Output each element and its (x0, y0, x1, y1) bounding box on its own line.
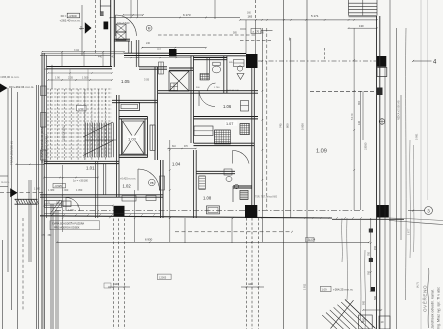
svg-text:900: 900 (358, 100, 361, 105)
svg-text:1.09: 1.09 (316, 149, 327, 155)
vertical x291 (290, 38, 292, 218)
boxes below wall 1 (45, 201, 62, 208)
svg-text:NÍZKA +2 500 AB: NÍZKA +2 500 AB (398, 100, 401, 120)
svg-text:6 173: 6 173 (183, 13, 191, 17)
svg-text:M: M (148, 27, 151, 31)
road line a (7, 88, 9, 272)
svg-text:+0,425 m.n.m.: +0,425 m.n.m. (120, 177, 136, 180)
label 1.03 (127, 136, 139, 142)
block top dim line (124, 57, 191, 59)
dim vertical x361 (360, 91, 362, 210)
staircase treads (84, 123, 86, 158)
dim vertical x246 (245, 20, 247, 54)
dashed vertical bottom R2 (251, 218, 253, 329)
dim vertical x62 (62, 165, 64, 232)
wall pair x116.5 (116, 95, 118, 197)
svg-text:1 760: 1 760 (214, 87, 220, 89)
dim ticks top (109, 17, 111, 19)
tick under arrow (79, 28, 84, 30)
leader line x82 (81, 5, 83, 56)
svg-text:1 050: 1 050 (76, 189, 83, 192)
vestibule dim verticals (130, 0, 132, 17)
road dash-dot line (55, 210, 365, 212)
X shaft boxes (171, 83, 178, 91)
dashed y91 right (310, 90, 377, 92)
svg-text:940: 940 (374, 245, 377, 250)
svg-text:150/130/150: 150/130/150 (63, 125, 66, 140)
box near column (234, 60, 245, 67)
svg-text:2 05: 2 05 (68, 76, 73, 79)
road centre dashed (0, 192, 44, 194)
svg-text:OVĚŘENO: OVĚŘENO (421, 285, 428, 312)
svg-text:1.08: 1.08 (203, 196, 212, 201)
vestibule right wall pair (128, 41, 130, 54)
corridor dim (44, 205, 113, 207)
svg-text:100/80: 100/80 (365, 142, 368, 150)
svg-text:1 380: 1 380 (34, 187, 41, 190)
svg-text:165: 165 (248, 14, 253, 18)
corridor diagonal (50, 200, 60, 214)
block dark seg (169, 49, 177, 57)
svg-text:TRASA 250/150 kV: TRASA 250/150 kV (10, 141, 14, 165)
X shaft (169, 71, 189, 91)
right line x406 (405, 28, 408, 300)
svg-text:ČIARA SCHODIŠŤA PUZDRA: ČIARA SCHODIŠŤA PUZDRA (52, 223, 85, 226)
vestibule dim line (123, 14, 143, 16)
bath right sink circle (237, 66, 242, 71)
svg-text:3 05: 3 05 (144, 78, 150, 82)
svg-text:Jandrisek odvodn. kanal.: Jandrisek odvodn. kanal. (431, 289, 435, 329)
svg-text:760: 760 (368, 270, 371, 275)
dashed vertical bottom L2 (118, 219, 120, 329)
vestibule bottom wall (114, 38, 130, 40)
benchmark arrow top (85, 22, 92, 34)
svg-text:6 930: 6 930 (145, 238, 153, 242)
svg-text:+0,05/280: +0,05/280 (94, 126, 97, 138)
dim vertical x354 (353, 28, 355, 210)
svg-text:-0,525: -0,525 (54, 184, 62, 188)
svg-text:PB: PB (150, 181, 154, 185)
right line x390 (389, 0, 391, 329)
door arc 1.08 (233, 150, 250, 163)
wall pair x136 (135, 40, 137, 67)
left tick 1 (0, 175, 8, 177)
small box bottom wall (379, 316, 390, 329)
hatch grid label (77, 105, 87, 111)
svg-text:1.02: 1.02 (123, 184, 132, 189)
elevator shaft walls (119, 116, 148, 118)
dashed vertical x267 (266, 28, 268, 210)
chain markers (369, 229, 373, 233)
svg-text:745: 745 (279, 123, 283, 128)
svg-text:380: 380 (48, 234, 53, 237)
top dim rows (42, 51, 124, 53)
inner wall x52 (51, 65, 53, 89)
svg-text:+265.40 m.n.m.: +265.40 m.n.m. (60, 19, 81, 23)
svg-text:10=+0,540: 10=+0,540 (117, 21, 130, 25)
1.08 bath wall (233, 185, 252, 187)
svg-text:1 677: 1 677 (407, 228, 411, 235)
wall below stairs (44, 160, 119, 162)
svg-text:TSR, TST, prívod 600: TSR, TST, prívod 600 (255, 196, 278, 199)
door arc vestibule (116, 15, 137, 36)
section mark 3 (425, 207, 433, 215)
terrain wavy 1 (409, 140, 412, 258)
top wall of block (47, 66, 113, 68)
left wall window 2 (41, 113, 47, 128)
section mark 4 (413, 60, 432, 62)
wall pair x95.5 (95, 161, 97, 218)
svg-text:780: 780 (368, 251, 371, 256)
dashed vertical road (22, 218, 24, 310)
1.08 desk hatch (199, 176, 206, 189)
svg-text:240: 240 (146, 42, 151, 45)
wall segment y67 right (139, 66, 167, 68)
radiator 1.05 (159, 62, 164, 74)
1.01 level box (53, 184, 66, 188)
svg-text:5 171: 5 171 (311, 14, 319, 18)
building left face (46, 55, 48, 218)
wall pair x155 (154, 67, 156, 160)
site wall left pair (41, 53, 43, 329)
dim 440 left (108, 286, 130, 288)
kitchenette 1.07 (194, 126, 213, 136)
vestibule top-left walls (100, 5, 111, 7)
svg-text:⌀ 170: ⌀ 170 (253, 30, 260, 34)
svg-text:440: 440 (248, 282, 253, 286)
svg-text:UL. SVRÁTECKÉHO (DIM): UL. SVRÁTECKÉHO (DIM) (39, 126, 44, 163)
level box bottom right (321, 286, 332, 291)
dash-dot between columns (258, 60, 376, 62)
road line b (11, 88, 13, 310)
svg-text:580: 580 (374, 295, 377, 300)
terrain wavy bottom 4 (364, 250, 367, 329)
svg-text:≈265,00 m.n.m.: ≈265,00 m.n.m. (0, 75, 20, 79)
road line d (2, 240, 4, 329)
label 1.07 (225, 121, 237, 126)
1.08 bath wc (224, 169, 232, 175)
svg-text:1.04: 1.04 (172, 162, 181, 167)
1.08 tub (207, 206, 220, 214)
svg-text:1 380: 1 380 (48, 189, 55, 192)
1.06 fixtures (241, 101, 249, 112)
svg-text:1σ = +35/180: 1σ = +35/180 (73, 180, 88, 183)
long vertical x284 (283, 0, 285, 329)
svg-text:12005: 12005 (159, 275, 167, 279)
svg-text:1 160: 1 160 (68, 210, 74, 212)
door jambs 1.01 (103, 164, 105, 195)
top dim line right (240, 19, 377, 21)
sheet fold line (420, 0, 422, 329)
dim row y73 (48, 72, 112, 74)
bottom dim line (57, 241, 369, 243)
svg-text:130: 130 (359, 24, 364, 28)
svg-text:302: 302 (80, 25, 83, 30)
dashed vertical bottom R3 (257, 218, 259, 329)
svg-text:1 060: 1 060 (62, 189, 69, 192)
floor hatch grid (47, 88, 112, 90)
boxes below wall 2 (63, 201, 71, 207)
svg-text:-4.500: -4.500 (68, 14, 77, 18)
staircase top right (348, 0, 350, 16)
vestibule wall left pair (110, 0, 112, 67)
M circle (146, 25, 152, 31)
toilet bowl (212, 66, 220, 73)
vestibule left L-wall (99, 0, 101, 16)
svg-text:+264,25 m.n.m.: +264,25 m.n.m. (333, 288, 353, 292)
dim extension x232 (231, 218, 233, 243)
vestibule shaft box X2 (116, 32, 126, 40)
main right wall pair (376, 16, 378, 329)
1.07 hatch box right (240, 124, 250, 135)
svg-text:m.n.m.: m.n.m. (1, 180, 10, 184)
kerb pair 3 (55, 210, 57, 329)
sill rect above lift (119, 103, 140, 111)
wall y143 (194, 142, 255, 144)
main ground line (40, 216, 332, 218)
left wall window 1 (41, 86, 47, 96)
wall dark seg (377, 88, 383, 96)
svg-text:440: 440 (114, 282, 119, 286)
svg-text:5 000: 5 000 (301, 123, 305, 130)
road pair x29 (28, 180, 30, 262)
wall y91 (158, 90, 258, 92)
dashed line y35 (158, 34, 256, 36)
label box on line x307 (306, 238, 315, 243)
right line x396 (396, 28, 398, 329)
svg-text:140: 140 (110, 55, 115, 58)
elevator cab X (123, 121, 145, 154)
kerb pair 2 (50, 204, 52, 329)
kerb pair 1 (36, 85, 38, 329)
svg-text:5 981: 5 981 (415, 133, 419, 140)
svg-text:±0=+262.04 m.n.m.: ±0=+262.04 m.n.m. (9, 85, 34, 89)
svg-text:170: 170 (41, 234, 46, 237)
svg-text:800: 800 (286, 123, 290, 128)
dashed y40 (240, 39, 273, 41)
ground line right part (332, 218, 404, 220)
svg-text:PRE MODRON ODSEK: PRE MODRON ODSEK (54, 226, 80, 229)
faint verticals 1.05 (69, 69, 71, 91)
benchmark arrow 2 (10, 188, 17, 197)
dashed line y232 (175, 231, 292, 233)
dim line y47 (142, 47, 206, 49)
corridor door arc (66, 198, 80, 212)
column C2 (245, 205, 257, 218)
xshaft walls (169, 67, 193, 69)
window boxes 1.04 (160, 176, 165, 190)
1.08 bath grid (240, 190, 248, 199)
dim 440 right (241, 286, 264, 288)
svg-text:1.01: 1.01 (86, 166, 95, 171)
left tick 2 (0, 186, 8, 188)
toilet partition (206, 58, 208, 81)
top dim line left (110, 17, 240, 19)
vestibule dark seg (104, 22, 109, 30)
short line y30 (261, 30, 273, 32)
svg-text:140: 140 (358, 120, 361, 125)
PB circle (149, 179, 156, 186)
window rect below 1.02 b (146, 196, 156, 201)
svg-text:1.03: 1.03 (128, 136, 137, 141)
toilet room walls (190, 56, 192, 143)
right line x401 (400, 95, 402, 240)
long vertical x307 (306, 0, 308, 329)
handwriting 3 (428, 268, 429, 328)
svg-text:1 90: 1 90 (55, 76, 60, 79)
block top wall2 (177, 53, 247, 55)
extra dim marks y17 (130, 17, 131, 18)
box 170 (251, 29, 261, 34)
room 1.05 dim line (48, 79, 112, 81)
dashed vertical bottom L3 (123, 219, 125, 329)
right line x385 (384, 66, 386, 329)
benchmark arrow left (0, 84, 8, 93)
svg-text:440: 440 (98, 55, 103, 58)
bath right V mark (237, 74, 244, 80)
stairs dim line (349, 27, 378, 29)
bottom wall ticks (51, 214, 52, 215)
toilet room top wall (193, 57, 227, 59)
ramp box (359, 315, 373, 329)
sink hatch box (200, 74, 209, 81)
ramp diagonals (345, 300, 375, 329)
wall y100 to right (112, 99, 158, 101)
ramp dim line (363, 309, 381, 311)
vestibule shaft box X1 (116, 24, 126, 32)
corridor line y213 (44, 213, 160, 215)
site boundary line top (40, 55, 111, 57)
circle column marker (379, 119, 385, 125)
top dim verticals over 1.05 (61, 52, 63, 67)
door arc 1.02 (138, 169, 160, 191)
road line c (17, 92, 19, 329)
dashed vertical x255 (255, 0, 257, 20)
wall pair x160 (160, 160, 162, 218)
1.04 dim row (168, 148, 196, 150)
1.08 left wall (193, 150, 195, 218)
column C4 (246, 54, 258, 68)
door arc 1.06 (199, 91, 215, 107)
box below C5 (377, 68, 387, 77)
svg-text:(4,7): (4,7) (416, 282, 420, 288)
terrain wavy 2 (412, 145, 415, 252)
left wall window 3 (41, 150, 47, 160)
grey box bottom center (157, 274, 171, 279)
1.01 dim line (44, 177, 98, 179)
svg-text:1.06: 1.06 (223, 104, 232, 109)
svg-text:1 811: 1 811 (303, 283, 307, 290)
1.08 top wall (196, 170, 235, 172)
door arc toilet (208, 83, 216, 91)
crossing hatch band (15, 198, 38, 200)
right wall of block (251, 68, 253, 205)
svg-text:5 170: 5 170 (350, 113, 354, 120)
svg-text:1.05: 1.05 (121, 79, 130, 84)
svg-text:Ing. Mraz vyj. spr. TI v abc: Ing. Mraz vyj. spr. TI v abc (437, 287, 441, 329)
svg-text:900: 900 (363, 300, 366, 305)
wall y116.5 (194, 116, 259, 118)
wall below 1.01 (40, 194, 163, 196)
terrain wavy bottom 2 (346, 218, 349, 300)
ground line fade right (389, 221, 443, 225)
narrow shaft right of lift (150, 125, 155, 150)
svg-text:1.09: 1.09 (322, 287, 328, 291)
dim extension x185 (184, 218, 186, 243)
column C3 (377, 205, 389, 218)
tiny box road label (104, 283, 111, 288)
1.07 hatched appliance (215, 130, 231, 144)
column C1 (114, 206, 125, 216)
dim line left y164 (16, 163, 44, 165)
block top wall (124, 52, 170, 54)
svg-text:3 04: 3 04 (74, 49, 79, 52)
dim vertical x262 (261, 28, 263, 242)
dim vertical 1.04 (169, 140, 171, 242)
chain x371 (370, 218, 372, 291)
dim vertical x324 dash (324, 48, 326, 61)
dim vertical x215 (214, 0, 216, 19)
column C5 (377, 56, 387, 67)
svg-text:4,50: 4,50 (78, 107, 84, 111)
1.08 sink (234, 184, 238, 188)
ground tick row (304, 217, 305, 218)
svg-text:±0 =: ±0 = (61, 14, 67, 18)
terrain wavy bottom 3 (359, 220, 362, 320)
dim vertical x134 (134, 190, 136, 242)
svg-text:380: 380 (363, 317, 366, 322)
dashed vertical bottom R1 (246, 218, 248, 329)
svg-text:1.07: 1.07 (226, 122, 233, 126)
note box under ground (50, 221, 100, 230)
dashed vertical bottom L1 (112, 219, 114, 329)
grid structural verticals (84, 89, 86, 160)
sheet fold line 2 (427, 0, 429, 200)
terrain wavy bottom 1 (341, 218, 344, 262)
window rect below 1.02 a (122, 196, 136, 202)
svg-text:5 124: 5 124 (308, 238, 316, 242)
leader line x95 (95, 0, 97, 56)
ground ticks left (109, 217, 111, 219)
